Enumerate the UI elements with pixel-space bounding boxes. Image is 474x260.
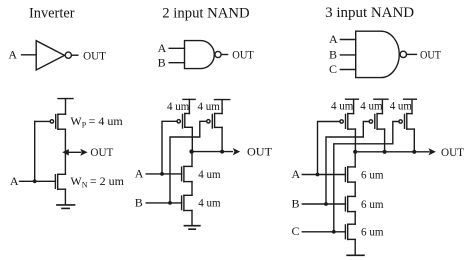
- arrow OUT (2NAND): [233, 148, 240, 155]
- NAND U3 output bubble: [400, 51, 406, 57]
- junction dot B: [324, 202, 328, 206]
- svg-text:OUT: OUT: [420, 48, 442, 62]
- transistor M1 PMOS (inverter pull-up): [50, 114, 65, 129]
- wire rail to N1 drain: [354, 152, 356, 167]
- svg-text:B: B: [158, 55, 166, 69]
- svg-text:4 um: 4 um: [390, 99, 413, 113]
- wire P3 drain: [413, 129, 415, 152]
- transistor P2 PMOS (2NAND): [207, 114, 222, 129]
- junction dot B: [168, 201, 172, 205]
- wire A to inverter symbol: [22, 54, 37, 56]
- power VDD rail 3 (3NAND): [404, 98, 417, 100]
- transistor N2 NMOS (2NAND): [182, 195, 192, 210]
- svg-text:6 um: 6 um: [361, 225, 384, 239]
- power VDD rail 1 (3NAND): [346, 98, 359, 100]
- svg-text:6 um: 6 um: [361, 197, 384, 211]
- svg-text:4 um: 4 um: [198, 196, 221, 210]
- ground (2NAND): [184, 226, 200, 230]
- svg-text:A: A: [10, 174, 19, 188]
- svg-text:OUT: OUT: [83, 48, 106, 62]
- wire N1 source to N2 drain: [354, 182, 356, 196]
- wire A gate riser: [162, 121, 177, 174]
- wire B gate route: [326, 122, 369, 205]
- wire VDD to PMOS source: [65, 99, 67, 115]
- inverter U1 output bubble: [65, 52, 71, 58]
- junction node P3 drain: [412, 150, 416, 154]
- svg-text:A: A: [292, 167, 301, 181]
- transistor P1 PMOS (3NAND): [340, 114, 356, 130]
- wire B to gate: [340, 54, 355, 56]
- wire P2 drain: [384, 129, 386, 152]
- ground (3NAND): [347, 254, 364, 256]
- svg-text:WP = 4 um: WP = 4 um: [70, 114, 123, 130]
- junction node P1 drain: [353, 150, 357, 154]
- wire A input line: [20, 180, 56, 182]
- svg-text:C: C: [329, 62, 337, 76]
- junction dot A: [33, 179, 37, 183]
- wire input gate vertical: [34, 121, 36, 181]
- wire P2 drain: [221, 127, 223, 151]
- wire A input line: [146, 173, 181, 175]
- svg-text:B: B: [329, 48, 337, 62]
- wire B gate route: [170, 121, 207, 203]
- svg-text:3 input NAND: 3 input NAND: [325, 5, 414, 21]
- svg-text:A: A: [8, 48, 17, 62]
- wire rail to N1 drain: [191, 152, 193, 167]
- svg-text:4 um: 4 um: [198, 167, 221, 181]
- transistor N1 NMOS (3NAND): [345, 167, 355, 182]
- svg-text:Inverter: Inverter: [29, 5, 75, 21]
- wire A to gate: [340, 39, 355, 41]
- junction node P1 drain: [189, 149, 193, 153]
- wire C to gate: [340, 69, 355, 71]
- wire P1 drain: [191, 127, 193, 151]
- wire B input line: [146, 202, 181, 204]
- transistor N1 NMOS (2NAND): [182, 166, 192, 181]
- wire VDD1 stem: [188, 99, 190, 113]
- svg-text:OUT: OUT: [247, 145, 273, 159]
- wire output rail: [192, 151, 232, 153]
- power VDD rail 2 (3NAND): [374, 98, 388, 100]
- wire PMOS drain to NMOS drain: [64, 129, 66, 174]
- transistor N2 NMOS (3NAND): [345, 196, 355, 211]
- svg-text:OUT: OUT: [441, 145, 465, 159]
- wire VDD1 stem: [353, 99, 355, 113]
- wire output rail: [355, 151, 429, 153]
- arrow OUT: [80, 149, 87, 156]
- transistor P3 PMOS (3NAND): [399, 114, 414, 130]
- svg-text:4 um: 4 um: [360, 99, 383, 113]
- wire VDD2 stem: [221, 100, 223, 114]
- wire C gate route: [334, 122, 399, 232]
- svg-text:A: A: [329, 32, 338, 46]
- transistor N3 NMOS (3NAND): [345, 224, 355, 239]
- wire P1 drain: [354, 129, 356, 152]
- junction dot A: [160, 172, 164, 176]
- wire B to gate: [169, 62, 184, 64]
- wire B input line: [302, 203, 345, 205]
- svg-text:4 um: 4 um: [167, 99, 190, 113]
- ground (inverter): [57, 205, 75, 209]
- wire bubble to OUT: [221, 54, 227, 56]
- NAND gate U2 body: [185, 41, 215, 69]
- junction dot C: [332, 230, 336, 234]
- power VDD rail 2 (2NAND): [215, 99, 230, 101]
- svg-text:OUT: OUT: [90, 145, 114, 159]
- transistor P2 PMOS (3NAND): [369, 114, 384, 130]
- wire N2 source to N3 drain: [354, 212, 356, 225]
- wire N2 source to ground: [191, 211, 193, 226]
- power VDD rail (inverter): [58, 98, 73, 100]
- transistor P1 PMOS (2NAND): [177, 114, 192, 129]
- transistor M2 NMOS (inverter pull-down): [55, 174, 65, 189]
- wire NMOS source to ground: [64, 189, 66, 204]
- svg-text:A: A: [135, 167, 144, 181]
- wire A gate riser: [318, 122, 340, 175]
- wire A to gate: [169, 47, 184, 49]
- wire PMOS gate lead: [35, 120, 51, 122]
- svg-text:WN = 2 um: WN = 2 um: [70, 174, 124, 190]
- arrow OUT (3NAND): [429, 148, 436, 155]
- svg-text:2 input NAND: 2 input NAND: [162, 5, 249, 21]
- wire OUT stub: [65, 151, 80, 153]
- svg-text:4 um: 4 um: [331, 99, 354, 113]
- node OUT junction arrow: [62, 149, 69, 155]
- wire N1 source to N2 drain: [191, 182, 193, 196]
- svg-text:C: C: [292, 224, 300, 238]
- NAND gate U3 body: [356, 31, 400, 77]
- junction node P2 drain: [220, 150, 224, 154]
- wire N3 source to ground: [354, 239, 356, 255]
- svg-text:4 um: 4 um: [198, 99, 221, 113]
- junction dot A: [316, 173, 320, 177]
- wire C input line: [302, 231, 345, 233]
- wire bubble to OUT: [407, 53, 417, 55]
- svg-text:OUT: OUT: [232, 48, 254, 62]
- svg-text:B: B: [292, 196, 300, 210]
- inverter U1 triangle: [36, 41, 64, 70]
- svg-text:6 um: 6 um: [361, 167, 384, 181]
- wire VDD2 stem: [381, 99, 383, 113]
- wire A input line: [302, 174, 345, 176]
- svg-text:B: B: [135, 196, 143, 210]
- NAND U2 output bubble: [215, 51, 221, 57]
- wire VDD3 stem: [411, 99, 413, 113]
- junction node P2 drain: [383, 150, 387, 154]
- svg-text:A: A: [158, 41, 167, 55]
- wire bubble to OUT: [72, 54, 78, 56]
- power VDD rail 1 (2NAND): [183, 98, 195, 100]
